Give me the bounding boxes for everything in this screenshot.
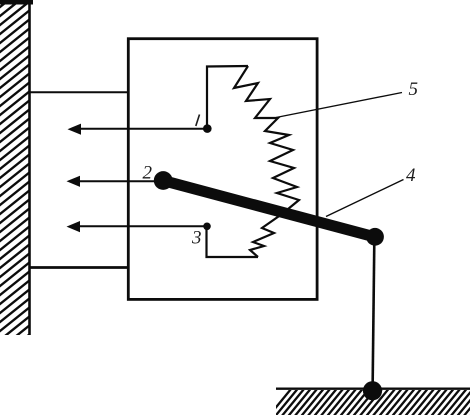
arrow 3 head	[67, 221, 81, 232]
svg-text:5: 5	[409, 79, 419, 100]
wall top cap	[0, 0, 33, 5]
node 3 dot	[203, 223, 211, 231]
spring 5 zigzag	[234, 66, 299, 257]
arrow 1 head	[68, 124, 82, 135]
wall right edge	[28, 0, 31, 335]
wire spring bottom to node3	[207, 226, 259, 257]
bottom ball	[363, 381, 382, 400]
arrow 3 line	[79, 225, 207, 227]
box (device body)	[128, 39, 317, 300]
ground surface line	[276, 388, 470, 390]
arrow 2 head	[67, 176, 81, 187]
label 1	[196, 115, 200, 127]
arrow 2 line	[79, 180, 158, 182]
wall hatching	[0, 0, 40, 375]
node 1 dot	[203, 124, 212, 133]
wire wall to box bottom	[29, 266, 128, 269]
svg-text:4: 4	[406, 165, 416, 186]
wire wall to box top	[29, 91, 128, 93]
leader line to 5	[276, 93, 402, 118]
wire node1 to spring top	[207, 66, 248, 129]
lever 4 bar	[163, 181, 375, 238]
lever left ball (node 2)	[154, 171, 173, 190]
svg-text:2: 2	[143, 163, 153, 184]
svg-text:3: 3	[191, 228, 202, 249]
ground hatching	[268, 389, 470, 416]
arrow 1 line	[80, 128, 207, 130]
link rod down	[373, 242, 375, 389]
leader line to 4	[326, 180, 404, 217]
lever right ball	[366, 228, 384, 246]
